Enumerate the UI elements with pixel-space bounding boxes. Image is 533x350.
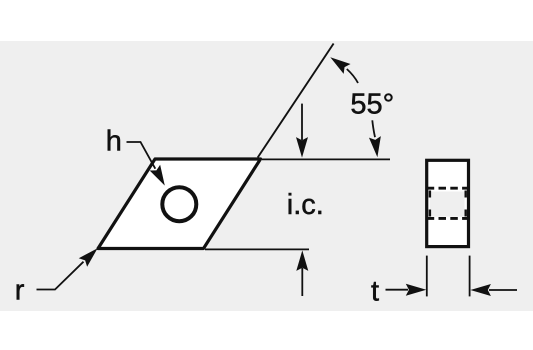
center hole (162, 187, 196, 221)
label i.c. (287, 189, 324, 221)
svg-text:h: h (106, 125, 122, 157)
curved leader arrow from 55 to slant line (327, 52, 358, 83)
label t (371, 276, 379, 308)
hidden line lower (hole) (427, 217, 469, 220)
label h (106, 125, 122, 157)
t dimension right arrow (470, 284, 517, 296)
left extension line below side view (426, 256, 428, 297)
svg-text:i.c.: i.c. (287, 189, 324, 221)
insert body top view (parallelogram) (98, 159, 261, 249)
i.c. dimension up arrow (296, 250, 308, 296)
insert side view rectangle (427, 160, 469, 246)
bottom extension line (205, 248, 309, 250)
leader arrow from h to hole (127, 142, 171, 188)
curved leader arrow from 55 down to horizontal line (369, 120, 383, 158)
hidden line upper (hole) (427, 187, 469, 190)
leader arrow from r to corner radius (37, 244, 102, 290)
i.c. dimension down arrow (296, 104, 308, 158)
svg-text:t: t (371, 276, 379, 308)
label 55 degrees (350, 89, 394, 121)
hidden line left vertical (429, 191, 431, 217)
top extension line (262, 158, 390, 160)
hidden line right vertical (465, 191, 467, 217)
svg-text:r: r (15, 275, 25, 307)
label r (15, 275, 25, 307)
right extension line below side view (469, 256, 471, 297)
gray drawing band (0, 41, 533, 311)
t dimension left arrow (386, 284, 427, 296)
svg-text:55°: 55° (350, 89, 394, 121)
55 degree reference slant line (258, 44, 334, 158)
hole see-through area in side view (430, 192, 465, 217)
